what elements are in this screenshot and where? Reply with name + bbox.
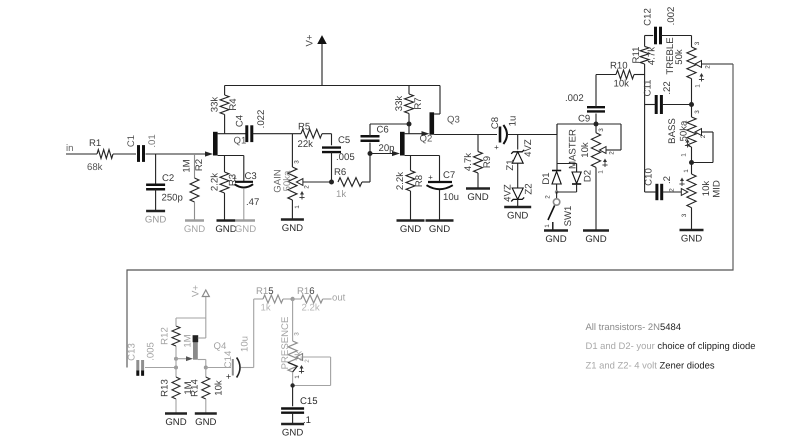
svg-text:22k: 22k	[298, 139, 314, 150]
svg-text:C13: C13	[126, 343, 137, 361]
capacitor C8	[494, 125, 507, 152]
value .22	[662, 81, 673, 94]
wire V+ rail	[225, 85, 440, 87]
wire	[224, 115, 226, 134]
potentiometer TREBLE	[687, 47, 702, 79]
svg-text:C6: C6	[377, 125, 389, 136]
wire	[691, 105, 693, 118]
value 33k	[210, 97, 221, 113]
svg-text:GND: GND	[507, 211, 528, 222]
capacitor C1	[139, 145, 144, 162]
svg-text:.2: .2	[662, 176, 673, 184]
wire	[198, 337, 206, 339]
pin 3	[694, 110, 701, 114]
label C5	[338, 135, 350, 146]
pin 1	[695, 73, 704, 88]
label C15	[300, 396, 318, 407]
svg-text:GND: GND	[681, 234, 702, 245]
svg-text:2.2k: 2.2k	[302, 303, 320, 314]
pin 3	[294, 160, 301, 164]
svg-text:R10: R10	[610, 60, 628, 71]
wire	[293, 298, 301, 300]
svg-text:2: 2	[705, 65, 712, 69]
svg-text:1: 1	[681, 153, 688, 157]
svg-text:1: 1	[598, 170, 605, 174]
note zeners	[586, 360, 715, 371]
resistor R4	[220, 95, 229, 115]
wire	[663, 191, 682, 193]
wire	[322, 133, 332, 135]
resistor R6	[338, 178, 362, 187]
svg-text:GND: GND	[545, 234, 566, 245]
svg-text:C11: C11	[643, 80, 654, 97]
pin 2	[304, 185, 311, 189]
transistor Q4	[186, 335, 198, 361]
label MASTER	[568, 129, 579, 169]
svg-text:Q2: Q2	[420, 134, 433, 145]
wire	[254, 298, 263, 300]
svg-text:GND: GND	[585, 234, 606, 245]
value 22k	[298, 139, 314, 150]
switch SW1	[548, 199, 560, 230]
svg-text:10u: 10u	[240, 336, 251, 352]
svg-text:R12: R12	[160, 327, 171, 345]
value 1u	[508, 116, 519, 127]
svg-text:R2: R2	[194, 159, 205, 171]
svg-text:1: 1	[294, 375, 301, 379]
svg-text:3: 3	[598, 128, 605, 132]
junction	[689, 160, 694, 165]
wire	[205, 399, 207, 413]
svg-text:C14: C14	[223, 350, 234, 368]
svg-text:C15: C15	[300, 396, 318, 407]
resistor R12	[172, 326, 180, 346]
wire wiper	[692, 132, 714, 163]
svg-text:2.2k: 2.2k	[395, 172, 406, 190]
capacitor C6	[361, 136, 380, 141]
wire	[439, 156, 441, 182]
diode D1	[552, 171, 561, 185]
svg-text:.002: .002	[565, 93, 584, 104]
wire	[331, 152, 333, 182]
value 1M	[182, 159, 193, 172]
svg-text:R13: R13	[160, 379, 171, 397]
label C4	[235, 114, 246, 127]
note transistors	[586, 322, 681, 333]
svg-text:3: 3	[294, 160, 301, 164]
label R15	[256, 286, 274, 297]
wire wiper	[293, 357, 331, 386]
wire	[224, 86, 226, 96]
label C3	[245, 171, 257, 182]
label MID	[712, 180, 723, 198]
wire	[645, 36, 654, 47]
label Q1	[234, 136, 247, 147]
svg-text:C12: C12	[643, 8, 654, 26]
wire	[596, 75, 616, 108]
wire	[644, 64, 646, 75]
junction	[290, 383, 294, 387]
junction	[368, 151, 373, 156]
value 10k	[580, 142, 591, 158]
potentiometer BASS	[687, 117, 702, 147]
value .1	[303, 415, 311, 426]
wire	[218, 155, 244, 157]
svg-text:1: 1	[544, 224, 551, 228]
svg-text:D1: D1	[541, 172, 552, 184]
resistor R8	[406, 171, 415, 192]
label R7	[413, 97, 424, 109]
svg-text:GND: GND	[282, 223, 303, 234]
wire	[369, 143, 371, 154]
resistor R2	[190, 178, 199, 202]
pin 2	[545, 195, 552, 199]
wire	[434, 134, 497, 136]
svg-text:R7: R7	[413, 97, 424, 109]
svg-text:C7: C7	[443, 170, 455, 181]
value 4.7k	[463, 153, 474, 171]
svg-text:Q4: Q4	[214, 341, 227, 352]
wire	[175, 368, 177, 378]
svg-text:50ka: 50ka	[679, 120, 690, 141]
resistor R7	[405, 94, 414, 114]
wire	[113, 153, 136, 155]
value 50ka	[282, 170, 293, 191]
wire	[691, 208, 693, 229]
svg-text:.005: .005	[336, 152, 355, 163]
svg-text:2: 2	[304, 359, 311, 363]
wire	[410, 191, 412, 220]
svg-text:1k: 1k	[261, 303, 271, 314]
ground	[145, 211, 166, 226]
svg-text:in: in	[66, 143, 73, 154]
ground	[184, 221, 205, 236]
junction	[204, 366, 208, 370]
wire	[517, 135, 519, 150]
svg-text:GND: GND	[184, 224, 205, 235]
label D2	[583, 170, 594, 182]
value 50k	[674, 49, 685, 65]
svg-text:Z1: Z1	[505, 159, 516, 170]
label R14	[190, 379, 201, 397]
pin 1	[294, 365, 304, 379]
svg-text:+: +	[494, 143, 499, 152]
wire	[557, 184, 577, 192]
wire	[517, 199, 519, 206]
label R2	[194, 159, 205, 171]
wire	[225, 133, 246, 135]
label C14	[223, 350, 234, 368]
label PRESENCE	[280, 317, 291, 370]
wire	[557, 164, 577, 173]
label C11	[643, 80, 654, 97]
wire	[291, 200, 293, 219]
wire	[644, 75, 646, 193]
wire	[595, 167, 597, 229]
wire	[175, 399, 177, 413]
value 10k	[214, 380, 225, 396]
wire wiper	[606, 124, 621, 150]
junction	[555, 190, 559, 194]
resistor R1	[97, 150, 113, 159]
value 1k	[336, 189, 346, 200]
wire	[218, 133, 225, 135]
capacitor C7	[427, 173, 453, 189]
value .47	[246, 197, 259, 208]
wire	[323, 298, 332, 300]
wire	[243, 156, 245, 182]
potentiometer MASTER	[591, 133, 606, 168]
junction	[174, 366, 178, 370]
label Z1	[505, 159, 516, 170]
svg-text:1M: 1M	[182, 159, 193, 172]
wire	[507, 134, 557, 136]
svg-text:50k: 50k	[674, 49, 685, 65]
wire	[176, 318, 206, 326]
wire gate	[176, 358, 186, 360]
capacitor C13	[138, 360, 143, 376]
wire	[194, 154, 196, 178]
wire	[194, 202, 196, 220]
wire	[175, 346, 177, 359]
svg-text:D1 and D2- your choice of clip: D1 and D2- your choice of clipping diode	[586, 341, 756, 352]
svg-text:GND: GND	[235, 224, 256, 235]
svg-text:.022: .022	[256, 110, 267, 129]
label R1	[89, 138, 101, 149]
ground	[215, 221, 236, 236]
svg-text:out: out	[332, 293, 346, 304]
pin 1	[681, 139, 690, 157]
wire	[691, 79, 693, 105]
svg-text:.1: .1	[303, 415, 311, 426]
capacitor C11	[656, 95, 661, 114]
svg-text:R16: R16	[297, 286, 315, 297]
svg-text:GND: GND	[145, 215, 166, 226]
junction	[594, 122, 599, 127]
svg-text:.22: .22	[662, 81, 673, 94]
value 4VZ	[523, 139, 534, 157]
pin 2	[304, 359, 311, 363]
svg-text:+: +	[428, 173, 433, 182]
pin 3	[694, 41, 701, 45]
svg-text:Q3: Q3	[447, 115, 460, 126]
label GAIN	[273, 169, 284, 193]
resistor R10	[616, 70, 634, 79]
wire	[645, 104, 656, 106]
wire	[370, 153, 397, 155]
value 68k	[87, 162, 103, 173]
value 20p	[379, 143, 395, 154]
transistor Q1	[205, 132, 218, 157]
wire	[292, 299, 294, 341]
wire	[66, 153, 97, 155]
wire	[243, 189, 245, 220]
label R6	[334, 167, 346, 178]
svg-text:50ka: 50ka	[282, 170, 293, 191]
value 50ka	[679, 120, 690, 141]
ground	[583, 231, 609, 246]
capacitor C10	[657, 184, 662, 200]
wire	[410, 156, 412, 171]
diode D2	[572, 172, 581, 184]
svg-text:2: 2	[304, 185, 311, 189]
wire	[408, 86, 410, 95]
wire	[175, 359, 177, 368]
value 4VZ	[503, 184, 514, 202]
label R10	[610, 60, 628, 71]
svg-text:10k: 10k	[614, 79, 630, 90]
svg-text:10k: 10k	[214, 380, 225, 396]
wire	[206, 367, 231, 369]
svg-text:33k: 33k	[394, 96, 405, 112]
value 1M	[183, 334, 194, 347]
svg-text:4VZ: 4VZ	[503, 184, 514, 202]
node in (input)	[66, 143, 73, 154]
wire	[292, 372, 294, 386]
value 250p	[162, 193, 183, 204]
svg-text:10k: 10k	[701, 181, 712, 197]
svg-text:MASTER: MASTER	[568, 129, 579, 169]
svg-text:250p: 250p	[162, 193, 183, 204]
label C6	[377, 125, 389, 136]
svg-text:.47: .47	[246, 197, 259, 208]
svg-text:C8: C8	[490, 117, 501, 129]
wire	[155, 154, 157, 184]
pin 2	[609, 151, 616, 155]
wire	[291, 134, 293, 167]
svg-text:2: 2	[545, 195, 552, 199]
wire	[283, 298, 293, 300]
label R12	[160, 327, 171, 345]
wire	[155, 189, 157, 210]
transistor Q2	[392, 132, 405, 156]
label Q2	[420, 134, 433, 145]
ground	[680, 230, 704, 245]
svg-text:V+: V+	[191, 285, 202, 297]
capacitor C12	[656, 27, 661, 45]
wire	[595, 124, 597, 133]
pin 2	[700, 134, 707, 138]
svg-text:1: 1	[695, 84, 702, 88]
svg-text:R8: R8	[414, 175, 425, 187]
svg-text:Q1: Q1	[234, 136, 247, 147]
svg-text:4.7k: 4.7k	[463, 153, 474, 171]
label C7	[443, 170, 455, 181]
label R4	[228, 98, 239, 111]
note diodes	[586, 341, 756, 352]
value .005	[146, 342, 157, 361]
value 2.2k	[302, 303, 320, 314]
pin 1	[679, 169, 690, 186]
label R3	[228, 174, 239, 186]
junction	[689, 102, 694, 107]
wire	[198, 360, 206, 368]
label C13	[126, 343, 137, 361]
label R13	[160, 379, 171, 397]
svg-text:GND: GND	[400, 224, 421, 235]
wire	[405, 155, 440, 157]
label C1	[126, 135, 137, 147]
ground	[397, 221, 425, 236]
value 1k	[261, 303, 271, 314]
label SW1	[563, 206, 574, 227]
value 10u	[240, 336, 251, 352]
svg-text:GND: GND	[215, 224, 236, 235]
resistor R5	[301, 129, 322, 138]
ground	[195, 414, 217, 429]
ground	[235, 221, 256, 236]
pin 1	[544, 224, 551, 228]
svg-text:All transistors- 2N5484: All transistors- 2N5484	[586, 322, 681, 333]
value .002	[565, 93, 584, 104]
zener Z1	[511, 150, 524, 163]
wire	[241, 299, 254, 368]
svg-text:2.2k: 2.2k	[210, 173, 221, 191]
value .002	[666, 7, 677, 26]
svg-text:+: +	[226, 372, 231, 382]
wire	[477, 135, 479, 152]
svg-text:R15: R15	[256, 286, 274, 297]
wire	[408, 114, 410, 134]
svg-text:3: 3	[694, 41, 701, 45]
resistor R9	[474, 152, 483, 174]
svg-text:68k: 68k	[87, 162, 103, 173]
svg-text:1k: 1k	[336, 189, 346, 200]
capacitor C5	[322, 148, 341, 153]
zener Z2	[511, 188, 524, 201]
label C2	[162, 173, 174, 184]
svg-text:R1: R1	[89, 138, 101, 149]
wire	[661, 36, 691, 48]
svg-text:C9: C9	[578, 114, 590, 125]
wire	[477, 173, 479, 188]
svg-text:BASS: BASS	[667, 118, 678, 144]
svg-text:GND: GND	[282, 428, 303, 439]
wire	[645, 191, 657, 193]
value 2k	[294, 351, 305, 361]
label D1	[541, 172, 552, 184]
svg-text:1M: 1M	[183, 334, 194, 347]
svg-text:V+: V+	[305, 34, 316, 46]
label R8	[414, 175, 425, 187]
svg-text:+: +	[232, 174, 237, 183]
wire	[517, 163, 519, 188]
value 1M	[183, 381, 194, 394]
label TREBLE	[665, 37, 676, 74]
wire	[224, 193, 226, 220]
value 33k	[394, 96, 405, 112]
svg-text:3: 3	[694, 110, 701, 114]
label R11	[631, 47, 642, 64]
ground	[281, 424, 304, 439]
potentiometer PRESENCE	[288, 341, 303, 372]
wire	[691, 163, 693, 175]
svg-text:Z1 and Z2- 4 volt Zener diodes: Z1 and Z2- 4 volt Zener diodes	[586, 360, 715, 371]
svg-text:C5: C5	[338, 135, 350, 146]
node out	[332, 293, 346, 304]
capacitor C15	[281, 409, 304, 413]
svg-text:2: 2	[669, 188, 676, 192]
svg-text:1u: 1u	[508, 116, 519, 127]
value .01	[147, 134, 158, 147]
capacitor C3	[232, 174, 253, 188]
label BASS	[667, 118, 678, 144]
ground	[544, 231, 568, 246]
svg-text:MID: MID	[712, 180, 723, 198]
pin 3	[681, 213, 688, 217]
junction	[407, 122, 412, 127]
wire	[556, 184, 558, 192]
